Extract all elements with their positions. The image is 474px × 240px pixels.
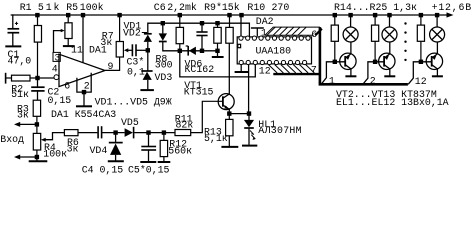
wire DA2 pin1 to rail bbox=[240, 15, 242, 36]
op-amp DA1 triangle bbox=[59, 54, 105, 86]
svg-text:5,1к: 5,1к bbox=[204, 133, 228, 144]
node rail R8 junction bbox=[178, 13, 182, 17]
lamp EL2 bbox=[382, 15, 397, 54]
wire channel12 riser bbox=[408, 62, 432, 85]
svg-text:VD1...VD5 Д9Ж: VD1...VD5 Д9Ж bbox=[95, 96, 172, 107]
svg-text:51k: 51k bbox=[38, 2, 61, 13]
svg-text:VD3: VD3 bbox=[155, 72, 173, 83]
diode VD3 bbox=[140, 50, 154, 90]
lamp EL12 bbox=[430, 15, 445, 54]
svg-text:3к: 3к bbox=[17, 110, 29, 121]
node input upper junction bbox=[35, 122, 39, 126]
svg-text:R5: R5 bbox=[66, 2, 78, 13]
svg-text:DA1 К554СА3: DA1 К554СА3 bbox=[51, 109, 116, 120]
ground under VT2 bbox=[345, 75, 356, 77]
resistor R11 bbox=[175, 101, 222, 135]
ellipsis dots between channels bbox=[404, 22, 406, 61]
wire channel2 riser bbox=[363, 62, 384, 85]
svg-text:3к: 3к bbox=[67, 144, 79, 155]
svg-text:С6: С6 bbox=[154, 2, 166, 13]
capacitor C5 bbox=[141, 147, 156, 151]
node rail R14 junction bbox=[333, 13, 337, 17]
resistor R4 potentiometer bbox=[33, 124, 40, 157]
ground under C1 bbox=[5, 45, 21, 47]
lamp EL1 bbox=[343, 15, 358, 54]
op-amp pin4 inversion bubble bbox=[54, 75, 59, 80]
wire R4 wiper bbox=[45, 133, 65, 140]
power arrow +12,6V rail end bbox=[447, 12, 454, 17]
node rail R25 junction bbox=[419, 13, 423, 17]
wire channel1 riser bbox=[322, 62, 346, 84]
svg-text:12: 12 bbox=[415, 76, 427, 87]
svg-text:R10: R10 bbox=[247, 2, 265, 13]
svg-text:12: 12 bbox=[259, 66, 271, 77]
ground DA2 bottom pin bbox=[240, 65, 242, 72]
svg-text:+12,6В: +12,6В bbox=[432, 2, 472, 13]
node rail R15 junction bbox=[373, 13, 377, 17]
node HL1 junction bbox=[247, 111, 251, 115]
wire DA2 pin to HL1 rail bbox=[248, 65, 250, 114]
svg-text:6: 6 bbox=[311, 29, 317, 40]
node rail DA2 pin1 junction bbox=[239, 13, 243, 17]
svg-text:VD2: VD2 bbox=[123, 28, 141, 39]
svg-text:4: 4 bbox=[52, 64, 58, 75]
IC DA2 bottom pin row bbox=[239, 60, 307, 64]
svg-text:300: 300 bbox=[155, 59, 173, 70]
resistor R9 bbox=[214, 23, 221, 51]
wire C1 drop from rail bbox=[12, 15, 14, 28]
svg-text:560к: 560к bbox=[168, 145, 192, 156]
bus thick output line bbox=[320, 82, 408, 84]
node C6 bottom junction bbox=[200, 49, 204, 53]
node rail R7 junction bbox=[117, 13, 121, 17]
node R9 bottom junction bbox=[215, 49, 219, 53]
resistor R3 bbox=[33, 100, 40, 124]
node channel1 base junction bbox=[333, 60, 337, 64]
resistor R25 bbox=[417, 15, 424, 62]
capacitor C4 bbox=[98, 126, 102, 138]
LED HL1 emission arrows bbox=[250, 130, 255, 139]
svg-text:2: 2 bbox=[84, 81, 90, 92]
node R12 junction bbox=[162, 130, 166, 134]
wire input arrow upper bbox=[20, 123, 37, 125]
node rail lamp1 junction bbox=[348, 13, 352, 17]
svg-text:3к: 3к bbox=[100, 37, 112, 48]
ground at R9 node bbox=[217, 51, 219, 57]
svg-text:EL1...EL12 13Вх0,1А: EL1...EL12 13Вх0,1А bbox=[336, 97, 449, 108]
svg-text:7: 7 bbox=[311, 64, 317, 75]
svg-text:VD4: VD4 bbox=[90, 145, 108, 156]
svg-text:КС162: КС162 bbox=[185, 64, 215, 75]
svg-text:КТ315: КТ315 bbox=[184, 86, 214, 97]
ground under VT13 bbox=[432, 75, 443, 77]
resistor R7 potentiometer bbox=[105, 15, 123, 70]
ground under R5 bbox=[63, 45, 75, 47]
IC DA2 thick right edge bbox=[319, 27, 322, 83]
node channel2 base junction bbox=[373, 60, 377, 64]
node rail R10 junction bbox=[227, 13, 231, 17]
node R8 detector junction bbox=[178, 49, 182, 53]
diode VD1 bbox=[159, 23, 218, 51]
svg-text:100k: 100k bbox=[80, 2, 104, 13]
node rail R5 junction bbox=[66, 13, 70, 17]
resistor R15 bbox=[372, 15, 379, 62]
capacitor C3 bbox=[132, 44, 136, 56]
node rail lamp2 junction bbox=[387, 13, 391, 17]
node rail lamp12 junction bbox=[435, 13, 439, 17]
capacitor C6 bbox=[196, 32, 207, 36]
node input lower junction bbox=[35, 155, 39, 159]
ground under VT3 bbox=[384, 75, 395, 77]
node line B R9 junction bbox=[215, 21, 219, 25]
svg-text:6: 6 bbox=[64, 81, 70, 92]
svg-text:1: 1 bbox=[261, 28, 267, 39]
wire input arrow lower bbox=[20, 156, 37, 158]
ground under R4 bbox=[36, 157, 38, 161]
zener diode VD6 bbox=[186, 46, 196, 56]
IC DA2 top pin row bbox=[239, 36, 310, 40]
node pins 6-2 junction bbox=[82, 90, 86, 94]
svg-text:100к: 100к bbox=[43, 149, 67, 160]
svg-text:11: 11 bbox=[71, 44, 83, 55]
terminal input tick R2 bbox=[5, 73, 7, 84]
transistor VT1 bbox=[218, 43, 234, 113]
svg-text:VD5: VD5 bbox=[121, 117, 139, 128]
diode VD5 bbox=[125, 127, 175, 139]
wire top rail line A bbox=[11, 14, 448, 16]
wire emitter rail bbox=[229, 113, 249, 115]
wire R5 wiper to pin3 bbox=[54, 31, 62, 53]
LED HL1 bbox=[242, 114, 257, 146]
node line B VD1 junction bbox=[161, 21, 165, 25]
IC DA2 thick bottom edge bbox=[273, 73, 320, 75]
svg-text:82к: 82к bbox=[176, 119, 194, 130]
svg-text:DA2: DA2 bbox=[256, 16, 274, 27]
svg-text:R9*15k: R9*15k bbox=[204, 2, 240, 13]
node C4 VD4 junction bbox=[113, 130, 117, 134]
IC DA2 package face bbox=[237, 37, 311, 64]
node rail pin11 junction bbox=[81, 13, 85, 17]
capacitor C2 bbox=[31, 87, 44, 91]
svg-text:2,2mk: 2,2mk bbox=[167, 2, 197, 13]
op-amp DA1 pin3 box bbox=[53, 52, 60, 61]
resistor R5 potentiometer bbox=[65, 15, 72, 45]
node R1 R2 C2 pin4 junction bbox=[35, 76, 39, 80]
resistor R1 bbox=[34, 15, 41, 78]
transistor VT13 bbox=[426, 53, 442, 75]
resistor R6 bbox=[64, 130, 78, 136]
wire detector to DA2 bottom pin bbox=[180, 51, 256, 77]
ground under op-amp bbox=[76, 105, 92, 107]
pin3 T-bar terminal bbox=[251, 27, 264, 29]
diode VD4 bbox=[108, 133, 124, 162]
svg-text:C4 0,15: C4 0,15 bbox=[82, 165, 124, 176]
resistor R10 bbox=[226, 15, 233, 43]
capacitor C1 bbox=[8, 29, 20, 33]
svg-text:0,1: 0,1 bbox=[127, 67, 145, 78]
svg-text:47,0: 47,0 bbox=[8, 55, 32, 66]
resistor R14 bbox=[331, 15, 338, 62]
svg-text:Вход: Вход bbox=[0, 134, 24, 145]
svg-text:0,15: 0,15 bbox=[48, 95, 72, 106]
wire pin11 bbox=[82, 15, 84, 63]
transistor VT3 bbox=[379, 53, 395, 75]
svg-text:С5*0,15: С5*0,15 bbox=[128, 165, 170, 176]
node rail R1 junction bbox=[35, 13, 39, 17]
ground under R13 bbox=[221, 146, 238, 148]
resistor R8 bbox=[176, 15, 183, 51]
IC DA2 thick top-right slant bbox=[315, 29, 322, 36]
svg-text:51к: 51к bbox=[11, 89, 29, 100]
wire second rail line B bbox=[148, 23, 250, 36]
svg-text:R1: R1 bbox=[20, 2, 32, 13]
ground under R12 bbox=[158, 161, 171, 163]
svg-text:UAA180: UAA180 bbox=[256, 46, 292, 57]
resistor R13 bbox=[226, 114, 233, 147]
node channel12 base junction bbox=[419, 60, 423, 64]
svg-text:R14...R25 1,3к: R14...R25 1,3к bbox=[334, 2, 417, 13]
node emitter R13 junction bbox=[227, 111, 231, 115]
transistor VT2 bbox=[340, 53, 356, 75]
svg-text:2: 2 bbox=[370, 75, 376, 86]
diode VD2 bbox=[144, 34, 152, 51]
resistor R2 bbox=[6, 75, 54, 81]
op-amp pins 6 and 2 bracket bbox=[77, 73, 91, 106]
svg-text:270: 270 bbox=[272, 2, 290, 13]
wire R7 wiper to C3 bbox=[128, 49, 132, 51]
IC DA2 bottom hatched band bbox=[269, 65, 315, 73]
svg-text:1: 1 bbox=[329, 75, 335, 86]
node C3 VD2 VD3 junction bbox=[146, 48, 150, 52]
node line B C6 junction bbox=[200, 21, 204, 25]
ground under C5 bbox=[140, 161, 156, 163]
IC DA2 top hatched band bbox=[265, 27, 320, 35]
resistor R12 bbox=[160, 133, 167, 162]
svg-text:АЛ307НМ: АЛ307НМ bbox=[258, 125, 302, 136]
node C5 junction bbox=[146, 130, 150, 134]
